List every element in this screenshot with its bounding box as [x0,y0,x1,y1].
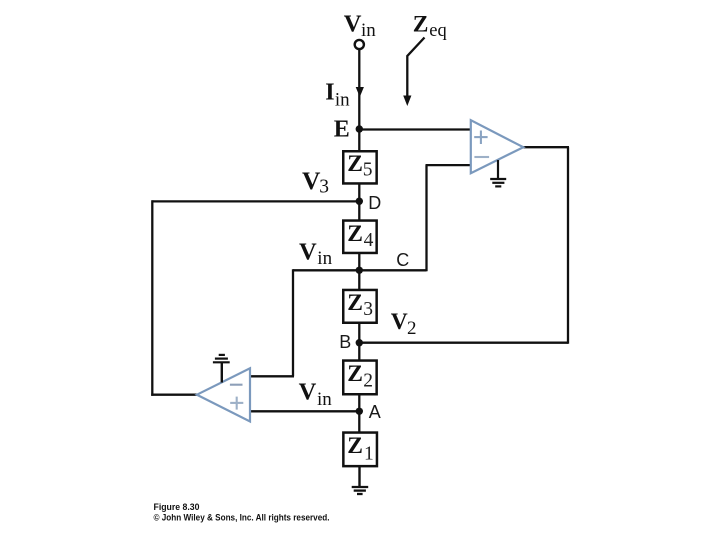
arrow Zeq pointer [403,38,424,107]
svg-text:Figure 8.30: Figure 8.30 [154,502,200,513]
svg-text:eq: eq [429,21,446,41]
wire horizontal into U2 - input [426,164,472,166]
label Zeq [413,12,447,41]
svg-text:in: in [335,90,350,111]
wire Z3 to node B [358,323,360,360]
svg-text:2: 2 [363,371,373,392]
ground (U1, above, inverted) [213,355,230,383]
wire left riser down to U1 - input [292,269,294,376]
svg-text:in: in [361,20,376,41]
svg-text:2: 2 [407,318,417,339]
impedance Z2 [343,361,376,395]
svg-text:A: A [369,402,381,422]
label V2 [391,309,417,339]
svg-text:in: in [317,389,332,410]
svg-text:Z: Z [347,221,363,247]
wire horizontal into U1 - input [250,375,294,377]
ground (U2, below) [490,160,506,186]
wire Z4 to node C [358,253,360,290]
impedance Z5 [343,151,376,183]
node B [356,339,363,346]
label Vin (node A net) [299,378,333,410]
arrow Iin (current direction) [356,87,364,97]
svg-text:V: V [299,238,317,265]
svg-text:C: C [396,250,409,270]
op-amp U1 (left, inverting top, points left) [197,368,250,421]
wire U2 output riser vertical [567,147,569,344]
svg-text:V: V [391,309,408,335]
wire node A to U1 + input [250,410,359,412]
wire node D to feedback (left) [152,200,359,202]
wire node C to U2 inverting branch [359,269,426,271]
node A [356,408,363,415]
label Vin (top source) [344,11,376,41]
op-amp U2 (right, non-inverting top) [471,120,524,173]
ground (main, below Z1) [352,487,369,494]
node D [356,198,363,205]
svg-text:© John Wiley & Sons, Inc. All: © John Wiley & Sons, Inc. All rights res… [154,513,330,524]
impedance Z1 [343,433,377,467]
wire node E to op-amp U2 + input [359,128,471,130]
impedance Z3 [343,290,376,323]
wire Z1 to ground [358,466,360,487]
svg-text:5: 5 [363,160,373,181]
svg-text:3: 3 [319,177,329,198]
impedance Z4 [343,221,376,253]
svg-text:4: 4 [364,230,374,251]
svg-text:3: 3 [363,299,373,320]
wire Z5 to node D [358,184,360,220]
wire U2 output horizontal [523,146,569,148]
svg-text:1: 1 [364,444,374,465]
svg-text:Z: Z [347,433,363,459]
node E [356,125,363,132]
svg-text:V: V [299,378,317,405]
wire Z2 to node A [358,394,360,432]
label Iin [325,79,350,110]
wire node C to U1 inverting branch (left) [293,269,359,271]
svg-text:Z: Z [347,361,363,387]
svg-text:Z: Z [347,151,363,177]
label Vin (node C net) [299,238,333,269]
label V3 [302,166,329,198]
wire feedback vertical (U1 output riser) [151,200,153,395]
svg-text:E: E [334,116,350,142]
svg-text:D: D [368,193,381,213]
wire riser to U2 - input [425,165,427,271]
svg-text:V: V [344,11,362,38]
wire Vin to node E [358,50,360,152]
node C [356,267,363,274]
terminal Vin [355,40,364,49]
svg-text:B: B [339,332,351,352]
svg-text:in: in [317,248,332,269]
svg-text:I: I [325,79,334,105]
wire node B to U2 output riser [359,342,568,344]
svg-text:Z: Z [347,290,363,316]
svg-text:Z: Z [413,12,429,38]
svg-text:V: V [302,166,321,195]
wire U1 output to riser [151,394,198,396]
